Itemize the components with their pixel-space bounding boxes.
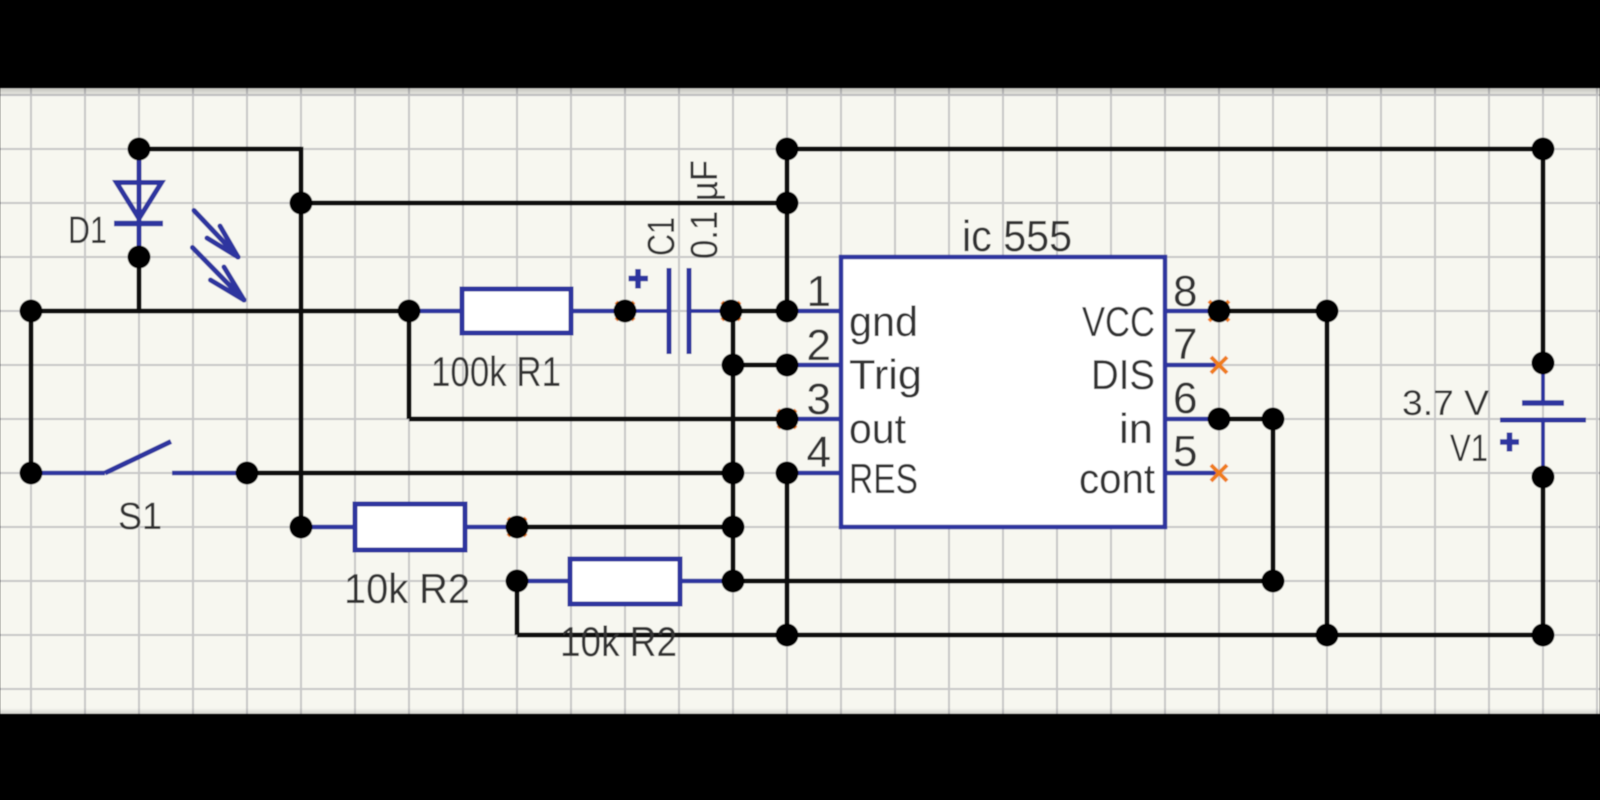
svg-text:cont: cont xyxy=(1079,455,1155,502)
capacitor C1 xyxy=(625,268,731,354)
node R2 left xyxy=(290,516,313,539)
wire top horizontal y=149 (x=787 to battery corner) xyxy=(787,147,1543,152)
svg-text:RES: RES xyxy=(849,455,918,502)
capacitor C1 plus polarity mark xyxy=(629,269,649,289)
no-connect x pin 7 xyxy=(1211,357,1227,373)
node left end y=311 xyxy=(20,300,43,323)
wire vertical x=409 (R1 left down to y=419) xyxy=(407,311,412,419)
node x=733 y=365 xyxy=(722,354,745,377)
svg-text:ic 555: ic 555 xyxy=(962,212,1072,261)
node x=733 y=527 xyxy=(722,516,745,539)
wire horizontal y=527 (R2 right to x=733) xyxy=(517,525,733,530)
svg-text:10k R2: 10k R2 xyxy=(344,565,470,612)
wire vertical x=1543 lower (battery to bottom rail) xyxy=(1541,477,1546,635)
wire top-left horizontal (D1 anode to x=301) xyxy=(139,147,301,152)
node x=301 y=203 xyxy=(290,192,313,215)
op-amp/timer IC U1 555 body xyxy=(841,257,1165,527)
svg-text:3: 3 xyxy=(807,375,831,424)
wire horizontal y=419 (R1 branch to pin3 node) xyxy=(409,417,787,422)
resistor R2 10k (lower) xyxy=(517,559,733,604)
svg-text:VCC: VCC xyxy=(1082,298,1155,345)
svg-text:10k R2: 10k R2 xyxy=(560,618,677,665)
svg-text:out: out xyxy=(849,405,906,452)
pin stub 5 cont xyxy=(1165,471,1219,476)
wire horizontal y=365 (x=733 to pin2 node) xyxy=(733,363,787,368)
node x=787 y=203 xyxy=(776,192,799,215)
no-connect x C1 right (under dot) xyxy=(722,302,740,320)
svg-text:7: 7 xyxy=(1173,320,1197,369)
node x=1273 y=581 xyxy=(1262,570,1285,593)
svg-text:0.1 µF: 0.1 µF xyxy=(684,160,726,259)
wire vertical x=517 (R2b left down to bottom rail) xyxy=(515,581,520,635)
svg-text:4: 4 xyxy=(807,428,831,477)
wire bottom rail y=635 xyxy=(517,633,1543,638)
wire vertical x=301 (top rail down to R2) xyxy=(299,147,304,527)
node pin4 RES xyxy=(776,462,799,485)
node battery bottom xyxy=(1532,466,1555,489)
svg-text:3.7 V: 3.7 V xyxy=(1402,384,1490,423)
wire vertical x=1273 (pin6 column to y=581) xyxy=(1271,419,1276,581)
wire vertical x=31 (left edge down to switch) xyxy=(29,311,34,473)
node top-right corner y=149 xyxy=(1532,138,1555,161)
svg-text:100k R1: 100k R1 xyxy=(431,348,561,395)
wire vertical x=787 upper (y=149 to pin1 node) xyxy=(785,149,790,311)
node R1 left xyxy=(398,300,421,323)
no-connect x R1 right (under dot) xyxy=(616,302,634,320)
pin stub 7 DIS xyxy=(1165,363,1219,368)
svg-text:C1: C1 xyxy=(641,217,683,256)
LED D1 light arrow 2 xyxy=(193,248,245,301)
svg-text:DIS: DIS xyxy=(1091,351,1155,398)
wire horizontal pin6 to x=1273 xyxy=(1219,417,1273,422)
wire vertical x=787 lower (pin4 node to bottom rail) xyxy=(785,473,790,635)
svg-text:6: 6 xyxy=(1173,374,1197,423)
no-connect x pin 8 (under dot) xyxy=(1209,301,1229,321)
wire vertical x=1327 (pin8 column to bottom rail) xyxy=(1325,311,1330,635)
node switch right xyxy=(236,462,259,485)
node pin2 Trig xyxy=(776,354,799,377)
resistor R1 100k xyxy=(409,289,625,333)
svg-text:D1: D1 xyxy=(68,210,107,252)
svg-text:Trig: Trig xyxy=(849,351,922,398)
node x=1327 y=311 xyxy=(1316,300,1339,323)
node switch left xyxy=(20,462,43,485)
svg-text:8: 8 xyxy=(1173,267,1197,316)
wire vertical x=139 (D1 cathode down to main rail) xyxy=(137,257,142,311)
node pin1 gnd xyxy=(776,300,799,323)
no-connect x R2 right (under dot) xyxy=(508,518,526,536)
node pin8 VCC xyxy=(1208,300,1231,323)
wire vertical x=1543 upper (top rail to battery +lead) xyxy=(1541,149,1546,363)
node R2b left xyxy=(506,570,529,593)
wire horizontal y=311 (C1 right to pin1) xyxy=(731,309,787,314)
svg-text:V1: V1 xyxy=(1450,428,1488,470)
pin stub 1 gnd xyxy=(787,309,841,314)
node x=733 y=473 xyxy=(722,462,745,485)
battery V1 plus polarity mark xyxy=(1500,433,1519,452)
node C1 left xyxy=(614,300,637,323)
wire vertical x=733 (pin2 column y=311..581) xyxy=(731,311,736,581)
node x=1273 y=419 xyxy=(1262,408,1285,431)
wire horizontal pin8 to x=1327 xyxy=(1219,309,1327,314)
pin stub 4 RES xyxy=(787,471,841,476)
pin stub 2 Trig xyxy=(787,363,841,368)
no-connect x pin 5 xyxy=(1211,465,1227,481)
svg-text:1: 1 xyxy=(807,267,831,316)
switch S1 xyxy=(31,442,247,474)
node battery top xyxy=(1532,352,1555,375)
wire main horizontal y=311 left (to R1) xyxy=(31,309,409,314)
battery V1 xyxy=(1500,363,1586,477)
node C1 right xyxy=(720,300,743,323)
node x=787 y=635 xyxy=(776,624,799,647)
node D1 anode / top rail xyxy=(128,138,151,161)
pin stub 3 out xyxy=(787,417,841,422)
svg-text:gnd: gnd xyxy=(849,298,918,345)
wire horizontal y=203 (x=301 to x=787) xyxy=(301,201,787,206)
node R2 right xyxy=(506,516,529,539)
node pin6 in xyxy=(1208,408,1231,431)
node x=1327 y=635 xyxy=(1316,624,1339,647)
wire horizontal y=473 (switch to x=733) xyxy=(247,471,733,476)
LED D1 light arrow 1 xyxy=(194,211,238,258)
svg-text:5: 5 xyxy=(1173,427,1197,476)
svg-text:in: in xyxy=(1119,405,1153,452)
node x=787 y=149 xyxy=(776,138,799,161)
resistor R2 10k (left) xyxy=(301,504,517,550)
LED D1 xyxy=(114,149,163,257)
pin stub 8 VCC xyxy=(1165,309,1219,314)
node pin3 out xyxy=(776,408,799,431)
svg-text:2: 2 xyxy=(807,321,831,370)
svg-text:S1: S1 xyxy=(118,496,162,538)
wire horizontal y=581 (R2b right to x=1273) xyxy=(733,579,1273,584)
pin stub 6 in xyxy=(1165,417,1219,422)
node D1 cathode xyxy=(128,246,151,269)
node bottom-right corner xyxy=(1532,624,1555,647)
no-connect x pin 3 (under dot) xyxy=(778,410,796,428)
node R2b right xyxy=(722,570,745,593)
